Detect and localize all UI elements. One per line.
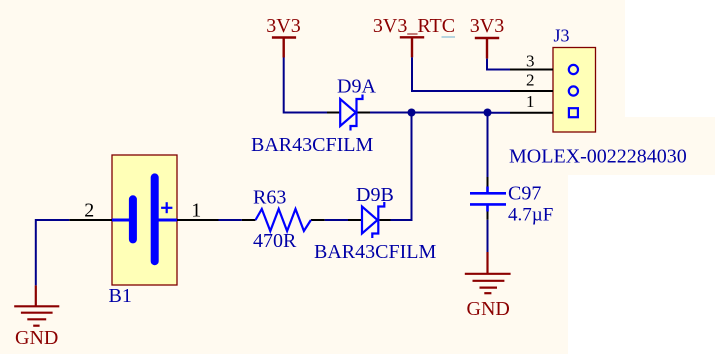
diode D9B pin stubs [348,219,391,221]
wire junction A to junction B [412,112,488,114]
svg-text:BAR43CFILM: BAR43CFILM [251,134,373,156]
wire junction B down to C97 [487,113,489,178]
capacitor C97 pin stubs [487,177,489,220]
pin 2 line [510,90,553,92]
wire 3V3_RTC to pin 2 [412,57,510,91]
battery B1 interior leads [112,219,177,222]
wire C97 to GND [487,220,489,252]
wire R63 to D9B [325,219,348,221]
pin 1 line [510,112,553,114]
power port 3V3 (left) [266,15,300,57]
pin 3 circle [569,65,578,74]
battery B1 negative plate [129,199,137,239]
svg-text:B1: B1 [109,285,132,307]
battery B1 body [112,155,177,285]
pin 3 line [510,69,553,71]
svg-text:1: 1 [526,92,535,111]
diode D9A pin stubs [327,112,370,114]
junction A [408,109,416,117]
svg-text:BAR43CFILM: BAR43CFILM [314,241,436,263]
junction B [484,109,492,117]
ground right symbol [465,274,511,293]
wire junction A down to D9B cathode [391,113,412,221]
svg-text:3V3: 3V3 [470,15,504,37]
battery B1 positive plate [151,177,159,261]
svg-text:GND: GND [467,298,510,320]
svg-text:470R: 470R [253,230,297,252]
svg-text:3V3: 3V3 [266,15,300,37]
battery B1 plus sign [161,202,172,213]
diode D9B (Schottky) [362,202,384,238]
svg-text:D9A: D9A [337,76,376,98]
svg-text:D9B: D9B [356,184,394,206]
svg-text:GND: GND [15,327,58,349]
svg-text:1: 1 [191,200,201,222]
ground left stub [35,285,37,306]
ground left symbol [14,306,59,325]
white area top-right [625,0,715,117]
power port 3V3_RTC [373,15,455,57]
svg-text:C97: C97 [508,183,541,205]
white area bottom-right [568,175,715,354]
pin 1 square [569,108,578,117]
wire 3V3 to pin 3 [487,59,510,70]
connector J3 body [553,48,596,133]
wire battery pin2 to GND [36,220,70,285]
svg-text:J3: J3 [554,25,570,45]
battery B1 pin stubs [69,219,218,221]
wire D9A cathode to junction A [370,112,412,114]
compile-indicator underline under C [442,36,456,38]
svg-text:2: 2 [84,200,94,222]
pin 2 circle [569,86,578,95]
ground right stub [486,252,488,274]
wire junction B to pin 1 [488,112,511,114]
svg-text:4.7µF: 4.7µF [508,204,553,225]
diode D9A (Schottky) [340,95,362,131]
svg-text:3: 3 [526,52,535,71]
wire battery pin1 to R63 [218,219,242,221]
svg-text:MOLEX-0022284030: MOLEX-0022284030 [509,146,687,168]
resistor R63 pin stubs [242,219,325,221]
svg-text:3V3_RTC: 3V3_RTC [373,15,455,37]
svg-text:R63: R63 [253,187,286,209]
resistor R63 zigzag [256,209,311,231]
power port 3V3 (right) [470,15,504,58]
wire 3V3 to D9A anode [284,58,328,113]
capacitor C97 leads [486,187,489,212]
svg-text:2: 2 [526,70,535,89]
capacitor C97 plates [470,193,506,204]
